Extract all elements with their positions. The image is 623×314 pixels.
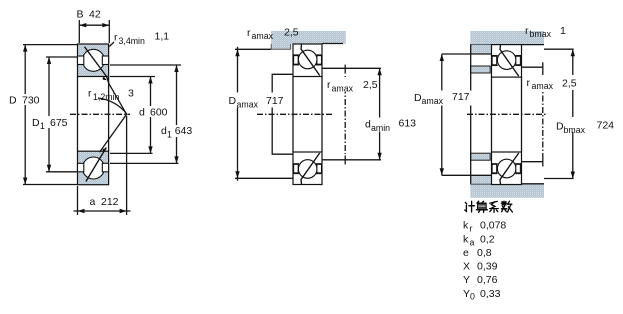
heading 计算系数 (drawn strokes) <box>465 201 513 212</box>
svg-text:3: 3 <box>128 88 134 100</box>
damin level lines (right) <box>522 66 544 68</box>
contact angle line top (middle) <box>301 44 320 75</box>
ball top (right) <box>497 51 516 70</box>
bottom section (blue) <box>78 148 109 185</box>
k_a 0,2 <box>463 234 495 248</box>
rbmax 1 label <box>525 25 566 39</box>
svg-text:613: 613 <box>399 117 417 129</box>
svg-text:0,76: 0,76 <box>477 274 498 286</box>
r3,4min leader <box>109 42 114 47</box>
svg-text:d: d <box>139 107 145 119</box>
bottom section (white) <box>293 152 322 185</box>
D1 dimension <box>46 57 78 172</box>
svg-text:0,2: 0,2 <box>480 234 495 246</box>
svg-text:k: k <box>463 220 469 232</box>
contact angle line top (right) <box>500 45 519 76</box>
Y 0,76 <box>463 274 498 286</box>
svg-text:1: 1 <box>167 129 172 139</box>
svg-text:42: 42 <box>89 9 101 21</box>
shaft abutment block top (blue) <box>471 66 491 73</box>
svg-text:amax: amax <box>532 81 554 91</box>
shaft abutment block bottom (blue) <box>471 153 491 160</box>
contact angle line bottom (right) <box>500 153 519 184</box>
pressure-center construction lines <box>100 83 127 152</box>
cage recesses bottom (middle) <box>294 164 299 173</box>
ball bottom <box>82 157 104 179</box>
Dbmax dimension <box>544 49 575 178</box>
r1,2min 3 label <box>88 88 134 103</box>
housing shoulder bottom (blue) <box>470 175 491 184</box>
B dimension <box>79 20 109 43</box>
svg-text:bmax: bmax <box>564 125 586 135</box>
svg-text:Y: Y <box>463 274 470 286</box>
svg-text:2,5: 2,5 <box>363 79 378 91</box>
a dimension <box>74 116 131 215</box>
svg-text:X: X <box>463 261 470 273</box>
damin dimension <box>377 68 381 160</box>
char 数 <box>501 201 512 212</box>
bearing faces <box>292 77 294 153</box>
svg-text:2,5: 2,5 <box>562 78 577 90</box>
ramax 2,5 label (right) <box>524 75 577 91</box>
d dimension <box>110 77 155 154</box>
damin abutment level lines <box>322 67 381 69</box>
damin 613 label <box>363 117 417 133</box>
housing bore line right of bearing <box>322 43 343 45</box>
a 212 label <box>87 195 121 208</box>
bearing cross-section rectangle (bore faces) <box>77 77 79 152</box>
svg-text:717: 717 <box>452 91 470 103</box>
svg-text:amax: amax <box>252 31 274 41</box>
char 算 <box>476 201 487 212</box>
housing band top (blue) <box>470 31 544 45</box>
svg-text:730: 730 <box>22 95 40 107</box>
shaft abutment outline left <box>272 74 293 154</box>
shaft face vertical line <box>470 45 472 184</box>
svg-text:r: r <box>470 224 473 234</box>
svg-text:675: 675 <box>50 117 68 129</box>
housing band bottom (blue) <box>470 184 544 198</box>
svg-text:a: a <box>470 238 475 248</box>
D dimension <box>23 45 78 185</box>
ball bottom (right) <box>497 159 516 178</box>
d 600 label <box>137 106 169 119</box>
svg-text:amax: amax <box>332 83 354 93</box>
svg-text:amin: amin <box>371 123 390 133</box>
X 0,39 <box>463 261 498 273</box>
svg-text:amax: amax <box>422 96 444 106</box>
char 系 <box>490 201 499 212</box>
svg-text:1,2min: 1,2min <box>93 92 120 102</box>
svg-text:amax: amax <box>237 100 259 110</box>
contact angle line bottom (middle) <box>301 153 320 184</box>
top section: outer+inner ring (blue) <box>78 44 109 83</box>
svg-text:e: e <box>463 247 469 259</box>
ball bottom (middle) <box>298 160 317 179</box>
center axis <box>70 113 130 115</box>
svg-text:2,5: 2,5 <box>284 27 299 39</box>
left cage recess bottom <box>78 163 84 172</box>
top section (white) <box>492 45 522 78</box>
svg-text:B: B <box>77 9 84 21</box>
e 0,8 <box>463 247 492 259</box>
svg-text:1,1: 1,1 <box>155 31 170 43</box>
contact angle line top <box>85 47 109 84</box>
right cage recess top <box>102 56 108 65</box>
cage recesses bottom (right) <box>492 164 497 173</box>
ring boundary lines top section (middle) <box>293 54 299 56</box>
svg-text:r: r <box>88 88 92 100</box>
ramax top label <box>247 27 299 42</box>
svg-text:0,8: 0,8 <box>477 247 492 259</box>
ra witness tick bottom <box>344 155 346 164</box>
svg-text:k: k <box>463 234 469 246</box>
Dbmax 724 label <box>554 117 618 135</box>
ball top (middle) <box>298 50 317 69</box>
svg-text:0,078: 0,078 <box>480 220 506 232</box>
cage recesses top (right) <box>492 56 497 65</box>
svg-text:0,39: 0,39 <box>477 261 498 273</box>
ramax 2 label <box>325 77 378 93</box>
ra witness ticks <box>542 62 544 72</box>
svg-text:600: 600 <box>150 107 168 119</box>
contact angle line bottom <box>86 148 106 182</box>
housing shoulder top (blue) <box>470 45 491 54</box>
svg-text:r: r <box>525 25 529 37</box>
ra witness tick top <box>344 65 346 74</box>
svg-text:Y: Y <box>463 288 470 300</box>
bottom section (white) <box>492 152 522 185</box>
r3,4min 1,1 label <box>114 31 169 47</box>
char 计 <box>465 201 475 212</box>
k_r 0,078 <box>463 220 506 234</box>
ball top <box>82 49 104 71</box>
svg-text:643: 643 <box>175 125 193 137</box>
ring boundary lines top section (right) <box>492 55 498 57</box>
housing shoulder (blue) <box>271 44 291 49</box>
top section (white) <box>293 44 322 77</box>
Damax dimension (right) <box>440 54 471 175</box>
svg-text:a: a <box>90 196 96 208</box>
center axis <box>257 113 332 115</box>
svg-text:1: 1 <box>560 25 566 37</box>
d1 dimension <box>110 65 181 163</box>
svg-text:3,4min: 3,4min <box>119 36 146 46</box>
Damax 717 label (right) <box>412 91 472 107</box>
svg-text:0: 0 <box>470 292 475 302</box>
d1 643 label <box>159 125 195 139</box>
left cage recess top <box>78 56 84 65</box>
ring boundary lines bottom section (right) <box>492 163 498 165</box>
svg-text:724: 724 <box>597 120 615 132</box>
svg-text:D: D <box>9 95 17 107</box>
D1 675 label <box>31 116 68 131</box>
svg-text:717: 717 <box>266 95 284 107</box>
svg-text:r: r <box>527 77 531 89</box>
svg-text:D: D <box>32 117 40 129</box>
svg-text:r: r <box>327 79 331 91</box>
Damax dimension <box>235 47 293 181</box>
ring boundary lines bottom section (middle) <box>293 163 299 165</box>
bearing faces <box>491 77 493 153</box>
svg-text:bmax: bmax <box>530 29 552 39</box>
housing band (blue) <box>271 31 346 44</box>
leader arc r1,2min to apex <box>98 98 126 114</box>
D 730 label <box>7 94 46 107</box>
ra witness dash-dot line <box>344 76 346 154</box>
center axis <box>467 113 547 115</box>
svg-text:D: D <box>229 95 237 107</box>
svg-text:212: 212 <box>101 196 119 208</box>
cage recesses top (middle) <box>294 56 299 65</box>
right cage recess bottom <box>102 163 108 172</box>
Damax 717 label <box>226 93 284 110</box>
svg-text:0,33: 0,33 <box>480 288 501 300</box>
svg-text:1: 1 <box>40 121 45 131</box>
svg-text:r: r <box>247 27 251 39</box>
housing shoulder outline <box>271 44 290 49</box>
svg-text:r: r <box>114 32 118 44</box>
Y_0 0,33 <box>463 288 501 302</box>
